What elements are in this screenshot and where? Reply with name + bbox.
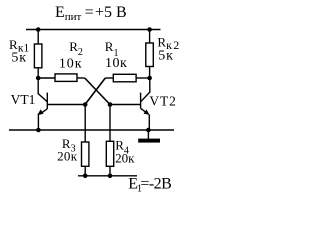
svg-text:VT1: VT1 — [11, 92, 36, 107]
ground stub — [147, 130, 149, 139]
wire: Rk2 to node B — [149, 67, 151, 79]
wire: +5V power rail — [26, 29, 161, 31]
svg-text:10к: 10к — [59, 57, 83, 72]
wire: bias rail E1 — [78, 175, 137, 177]
node A: VT1 collector — [36, 76, 41, 81]
ground bar — [138, 139, 160, 143]
transistor VT2 emitter diagonal — [141, 108, 149, 114]
transistor VT2 collector diagonal — [141, 92, 150, 102]
resistor R3 — [82, 142, 89, 166]
wire: R1 to VT1 base diagonal — [85, 78, 105, 105]
wire: node A to R2 — [38, 77, 55, 79]
node: rail-Rk1 junction — [36, 27, 41, 32]
wire: R1 to node B — [136, 77, 150, 79]
wire: VT1 base lead to base node — [47, 104, 85, 106]
transistor VT2 emitter arrowhead — [144, 110, 150, 115]
node: VT1 base — [83, 102, 88, 107]
wire: R1 left stub — [105, 77, 113, 79]
svg-text:VT2: VT2 — [149, 93, 176, 108]
wire: VT2 base node to R4 — [109, 105, 111, 142]
wire: emitter ground rail — [9, 129, 174, 131]
svg-text:20к: 20к — [57, 148, 78, 163]
wire: rail to Rk2 — [149, 30, 151, 44]
resistor R2 — [55, 74, 77, 82]
wire: rail to Rk1 — [37, 30, 39, 45]
node: VT1 emitter on ground rail — [36, 128, 41, 133]
wire: R4 to bias rail — [109, 166, 111, 176]
wire: R2 right stub — [77, 77, 85, 79]
transistor VT2 base bar — [140, 93, 142, 109]
wire: node A to VT1 collector — [37, 78, 39, 94]
node: R3 on bias rail — [83, 174, 88, 179]
svg-text:5к: 5к — [158, 48, 173, 63]
resistor Rk1 — [34, 44, 42, 68]
wire: VT2 base node to base lead — [110, 104, 141, 106]
svg-text:Eпит = +5 В: Eпит = +5 В — [55, 4, 127, 23]
resistor Rk2 — [146, 43, 154, 67]
transistor VT1 base bar — [46, 93, 48, 109]
node: R4 on bias rail — [108, 174, 113, 179]
wire: node B to VT2 collector — [149, 78, 151, 93]
resistor R4 — [106, 141, 113, 166]
transistor VT1 emitter diagonal — [39, 109, 47, 115]
wire: VT1 emitter down — [37, 114, 39, 131]
node B: VT2 collector — [147, 76, 152, 81]
svg-text:20к: 20к — [115, 150, 135, 165]
node: rail-Rk2 junction — [147, 27, 152, 32]
svg-text:R2: R2 — [69, 39, 83, 58]
wire: R2 to VT2 base diagonal — [85, 78, 110, 105]
node: VT2 emitter on ground rail — [146, 128, 151, 133]
wire: VT1 base node to R3 — [84, 105, 86, 143]
transistor VT1 collector diagonal — [38, 94, 47, 102]
resistor R1 — [113, 74, 136, 82]
wire: R3 to bias rail — [84, 166, 86, 176]
svg-text:5к: 5к — [11, 51, 26, 66]
wire: VT2 emitter down — [148, 115, 150, 131]
svg-text:E1=-2В: E1=-2В — [128, 175, 171, 194]
transistor VT1 emitter arrowhead — [38, 109, 44, 115]
wire: Rk1 to node A — [37, 68, 39, 79]
svg-text:10к: 10к — [105, 56, 127, 71]
node: VT2 base — [108, 102, 113, 107]
